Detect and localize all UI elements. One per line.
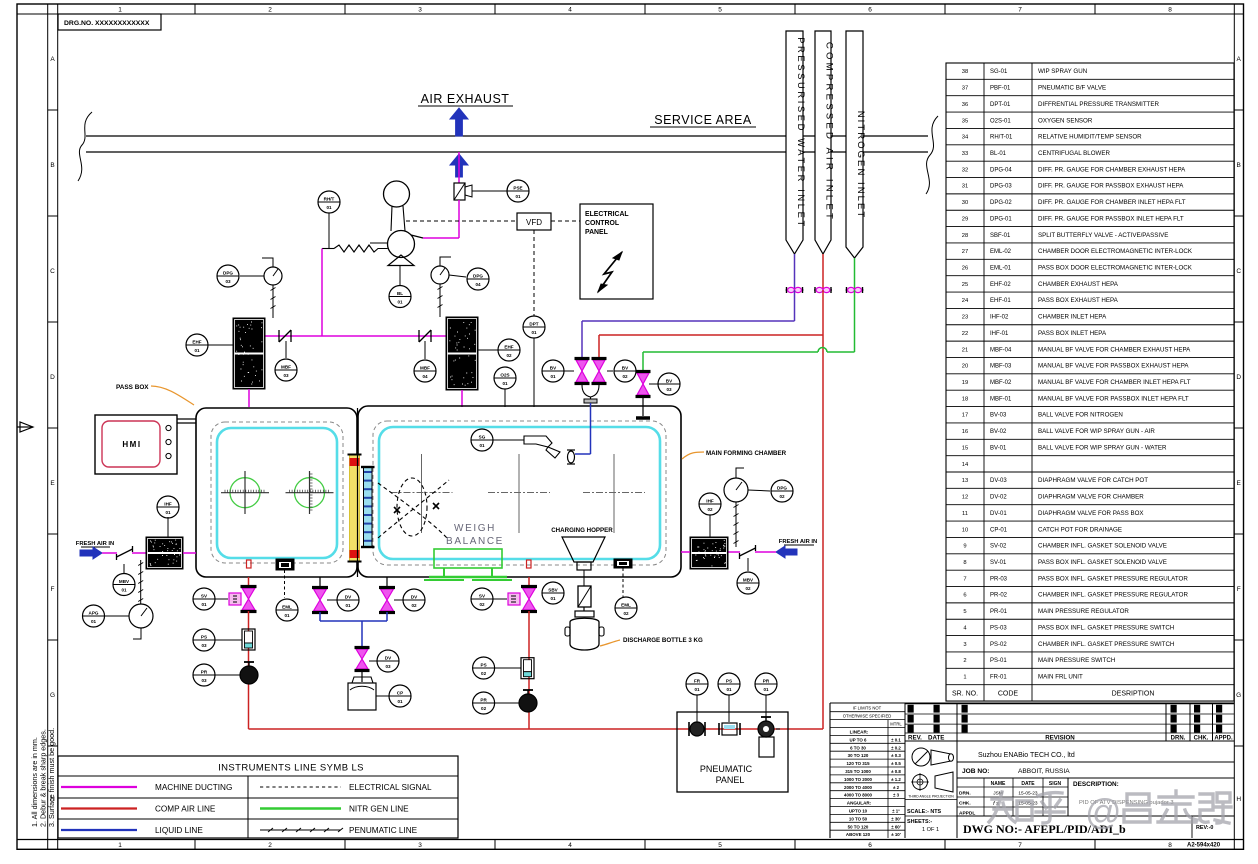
svg-text:SERVICE AREA: SERVICE AREA xyxy=(654,113,752,127)
svg-text:PR-02: PR-02 xyxy=(990,593,1008,599)
svg-text:02: 02 xyxy=(779,494,785,499)
svg-text:SBF-01: SBF-01 xyxy=(990,233,1011,239)
svg-text:CP-01: CP-01 xyxy=(990,527,1008,533)
svg-text:27: 27 xyxy=(962,249,968,255)
svg-text:SV: SV xyxy=(479,593,486,598)
svg-text:BALANCE: BALANCE xyxy=(446,536,504,547)
svg-text:BALL VALVE FOR WIP SPRAY GUN -: BALL VALVE FOR WIP SPRAY GUN - WATER xyxy=(1038,444,1167,451)
svg-text:NITROGEN INLET: NITROGEN INLET xyxy=(855,111,866,220)
svg-text:DIFF. PR. GAUGE FOR CHAMBER EX: DIFF. PR. GAUGE FOR CHAMBER EXHAUST HEPA xyxy=(1038,166,1186,173)
svg-text:BALL VALVE FOR WIP SPRAY GUN -: BALL VALVE FOR WIP SPRAY GUN - AIR xyxy=(1038,428,1155,435)
svg-text:BV-01: BV-01 xyxy=(990,445,1007,451)
svg-text:CHK.: CHK. xyxy=(959,801,971,807)
svg-text:DATE: DATE xyxy=(928,735,944,742)
svg-text:PASS BOX DOOR ELECTROMAGNETIC: PASS BOX DOOR ELECTROMAGNETIC INTER-LOCK xyxy=(1038,265,1193,272)
svg-text:G: G xyxy=(50,692,55,699)
svg-text:± 3: ± 3 xyxy=(893,793,900,798)
svg-text:CENTRIFUGAL BLOWER: CENTRIFUGAL BLOWER xyxy=(1038,150,1110,157)
svg-text:01: 01 xyxy=(694,687,700,692)
svg-text:16: 16 xyxy=(962,429,968,435)
svg-text:D: D xyxy=(50,374,55,381)
svg-text:01: 01 xyxy=(726,687,732,692)
svg-text:7: 7 xyxy=(1018,7,1022,14)
svg-text:O2S-01: O2S-01 xyxy=(990,118,1011,124)
svg-text:MANUAL BF VALVE FOR PASSBOX E: MANUAL BF VALVE FOR PASSBOX EXHAUST HEPA xyxy=(1038,363,1189,370)
svg-text:F: F xyxy=(51,586,55,593)
svg-text:8: 8 xyxy=(1168,842,1172,849)
svg-text:PR: PR xyxy=(480,697,487,702)
svg-text:HMI: HMI xyxy=(122,440,141,449)
svg-text:CONTROL: CONTROL xyxy=(585,220,619,227)
svg-text:3: 3 xyxy=(418,842,422,849)
svg-text:SV-02: SV-02 xyxy=(990,544,1007,550)
svg-text:CHAMBER DOOR ELECTROMAGNETIC I: CHAMBER DOOR ELECTROMAGNETIC INTER-LOCK xyxy=(1038,248,1193,255)
svg-text:RH/T: RH/T xyxy=(324,196,335,201)
svg-text:E: E xyxy=(1237,480,1242,487)
svg-text:DIAPHRAGM VALVE FOR PASS BOX: DIAPHRAGM VALVE FOR PASS BOX xyxy=(1038,510,1144,517)
svg-text:PASS BOX INFL. GASKET PRESSURE: PASS BOX INFL. GASKET PRESSURE SWITCH xyxy=(1038,624,1174,631)
svg-text:PSE: PSE xyxy=(513,185,522,190)
svg-text:2: 2 xyxy=(268,842,272,849)
svg-text:15-05-23: 15-05-23 xyxy=(1018,791,1038,797)
svg-text:ABOVE 120: ABOVE 120 xyxy=(846,832,871,837)
svg-text:01: 01 xyxy=(326,205,332,210)
svg-text:C: C xyxy=(50,268,55,275)
svg-text:O2S: O2S xyxy=(500,372,509,377)
svg-text:01: 01 xyxy=(550,596,556,601)
svg-text:C: C xyxy=(1236,268,1241,275)
svg-text:IHF-01: IHF-01 xyxy=(990,331,1009,337)
svg-text:B: B xyxy=(1237,162,1241,169)
svg-text:1: 1 xyxy=(118,842,122,849)
svg-text:F: F xyxy=(1237,586,1241,593)
svg-text:EHF-02: EHF-02 xyxy=(990,282,1011,288)
svg-text:MAIN PRESSURE SWITCH: MAIN PRESSURE SWITCH xyxy=(1038,657,1115,664)
svg-text:3: 3 xyxy=(418,7,422,14)
svg-text:DISCHARGE BOTTLE 3 KG: DISCHARGE BOTTLE 3 KG xyxy=(623,637,703,644)
svg-text:LIQUID LINE: LIQUID LINE xyxy=(155,826,203,835)
svg-text:9: 9 xyxy=(963,544,966,550)
svg-text:SCALE:- NTS: SCALE:- NTS xyxy=(907,809,942,815)
svg-text:A: A xyxy=(50,56,55,63)
svg-text:Suzhou ENABio TECH CO., ltd: Suzhou ENABio TECH CO., ltd xyxy=(978,752,1075,759)
svg-text:± 2: ± 2 xyxy=(893,785,900,790)
svg-text:01: 01 xyxy=(284,613,290,618)
svg-text:± 0.2: ± 0.2 xyxy=(891,745,901,750)
svg-text:DESCRIPTION:: DESCRIPTION: xyxy=(1073,781,1119,788)
svg-text:4: 4 xyxy=(568,7,572,14)
svg-text:3. Surface finish must be go: 3. Surface finish must be good. xyxy=(47,728,56,827)
svg-text:DV: DV xyxy=(411,594,418,599)
svg-text:APPDL: APPDL xyxy=(959,811,975,817)
svg-text:MBV: MBV xyxy=(743,577,754,582)
svg-text:± 1°: ± 1° xyxy=(892,809,900,814)
svg-text:BV-02: BV-02 xyxy=(990,429,1007,435)
svg-text:PR-01: PR-01 xyxy=(990,609,1008,615)
svg-text:04: 04 xyxy=(475,282,481,287)
svg-text:10 TO 50: 10 TO 50 xyxy=(849,816,868,821)
svg-text:CHAMBER INFL. GASKET PRESSURE: CHAMBER INFL. GASKET PRESSURE SWITCH xyxy=(1038,641,1174,648)
svg-text:CHAMBER INFL. GASKET PRESSURE: CHAMBER INFL. GASKET PRESSURE REGULATOR xyxy=(1038,592,1188,599)
svg-text:CHAMBER INLET HEPA: CHAMBER INLET HEPA xyxy=(1038,314,1107,321)
svg-text:PENUMATIC LINE: PENUMATIC LINE xyxy=(349,826,418,835)
svg-text:DRN.: DRN. xyxy=(1171,736,1186,742)
svg-text:FRESH AIR IN: FRESH AIR IN xyxy=(779,539,817,545)
svg-text:BV: BV xyxy=(622,365,629,370)
svg-text:MANUAL BF VALVE FOR CHAMBER I: MANUAL BF VALVE FOR CHAMBER INLET HEPA F… xyxy=(1038,379,1191,386)
svg-text:PS-02: PS-02 xyxy=(990,642,1007,648)
svg-text:WIP SPRAY GUN: WIP SPRAY GUN xyxy=(1038,68,1087,75)
svg-text:PS: PS xyxy=(481,662,487,667)
svg-text:INSTRUMENTS LINE SYMB LS: INSTRUMENTS LINE SYMB LS xyxy=(218,763,364,774)
svg-text:8: 8 xyxy=(963,560,966,566)
svg-text:DPG-01: DPG-01 xyxy=(990,216,1012,222)
svg-text:MBF-03: MBF-03 xyxy=(990,364,1012,370)
svg-text:26: 26 xyxy=(962,266,968,272)
svg-text:PS-03: PS-03 xyxy=(990,625,1007,631)
svg-text:5: 5 xyxy=(718,7,722,14)
svg-text:03: 03 xyxy=(201,678,207,683)
svg-text:01: 01 xyxy=(91,619,97,624)
svg-text:11: 11 xyxy=(962,511,968,517)
svg-text:ELECTRICAL: ELECTRICAL xyxy=(585,211,629,218)
svg-text:MBF: MBF xyxy=(281,364,291,369)
svg-text:2: 2 xyxy=(268,7,272,14)
svg-text:SIGN: SIGN xyxy=(1049,781,1062,787)
svg-text:DV-02: DV-02 xyxy=(990,495,1007,501)
svg-text:DESRIPTION: DESRIPTION xyxy=(1112,690,1155,697)
svg-text:BV: BV xyxy=(666,378,673,383)
svg-text:VFD: VFD xyxy=(526,218,542,227)
svg-text:SG-01: SG-01 xyxy=(990,69,1008,75)
svg-text:13: 13 xyxy=(962,478,968,484)
svg-text:PNEUMATIC: PNEUMATIC xyxy=(700,764,753,774)
svg-text:PASS BOX EXHAUST HEPA: PASS BOX EXHAUST HEPA xyxy=(1038,297,1119,304)
svg-text:35: 35 xyxy=(962,118,968,124)
svg-text:± 30′: ± 30′ xyxy=(891,816,901,821)
svg-text:02: 02 xyxy=(479,602,485,607)
svg-text:B: B xyxy=(50,162,54,169)
svg-text:@: @ xyxy=(1085,791,1122,832)
svg-text:02: 02 xyxy=(481,671,487,676)
svg-text:MBV: MBV xyxy=(119,579,130,584)
svg-text:DPG-03: DPG-03 xyxy=(990,184,1012,190)
svg-text:ELECTRICAL SIGNAL: ELECTRICAL SIGNAL xyxy=(349,783,432,792)
svg-text:5: 5 xyxy=(718,842,722,849)
svg-text:4000 TO 8000: 4000 TO 8000 xyxy=(844,793,873,798)
svg-text:315 TO 1000: 315 TO 1000 xyxy=(845,769,871,774)
svg-text:EML: EML xyxy=(282,604,292,609)
svg-text:37: 37 xyxy=(962,86,968,92)
svg-text:03: 03 xyxy=(283,373,289,378)
svg-text:50 TO 120: 50 TO 120 xyxy=(848,824,869,829)
svg-text:BV: BV xyxy=(550,365,557,370)
svg-text:33: 33 xyxy=(962,151,968,157)
svg-text:DPG: DPG xyxy=(777,485,787,490)
svg-text:PNEUMATIC B/F VALVE: PNEUMATIC B/F VALVE xyxy=(1038,85,1106,92)
svg-text:36: 36 xyxy=(962,102,968,108)
svg-text:02: 02 xyxy=(622,374,628,379)
svg-text:120 TO 315: 120 TO 315 xyxy=(846,761,870,766)
svg-text:IHF-02: IHF-02 xyxy=(990,315,1009,321)
svg-text:THIRD ANGLE PROJECTION: THIRD ANGLE PROJECTION xyxy=(908,795,954,799)
svg-text:IF LIMITS NOT: IF LIMITS NOT xyxy=(853,706,882,711)
svg-text:8: 8 xyxy=(1168,7,1172,14)
svg-text:PBF-01: PBF-01 xyxy=(990,86,1011,92)
svg-text:DPG: DPG xyxy=(223,270,233,275)
svg-text:DV: DV xyxy=(385,655,392,660)
svg-text:17: 17 xyxy=(962,413,968,419)
svg-text:01: 01 xyxy=(550,374,556,379)
svg-text:28: 28 xyxy=(962,233,968,239)
svg-text:MANUAL BF VALVE FOR CHAMBER E: MANUAL BF VALVE FOR CHAMBER EXHAUST HEPA xyxy=(1038,346,1191,353)
svg-text:SBV: SBV xyxy=(548,587,558,592)
svg-text:1000 TO 2000: 1000 TO 2000 xyxy=(844,777,873,782)
svg-text:LINEAR:: LINEAR: xyxy=(850,730,869,735)
svg-text:REV.: REV. xyxy=(908,735,922,742)
svg-text:COMPRESSED AIR INLET: COMPRESSED AIR INLET xyxy=(823,42,834,222)
svg-text:SPLIT BUTTERFLY VALVE - ACTIVE: SPLIT BUTTERFLY VALVE - ACTIVE/PASSIVE xyxy=(1038,232,1168,239)
svg-text:31: 31 xyxy=(962,184,968,190)
svg-text:03: 03 xyxy=(201,643,207,648)
svg-text:34: 34 xyxy=(962,135,969,141)
svg-text:OTHERWISE SPECIFIED: OTHERWISE SPECIFIED xyxy=(843,714,892,719)
svg-text:01: 01 xyxy=(479,443,485,448)
svg-text:DPT: DPT xyxy=(529,321,538,326)
svg-text:CHK.: CHK. xyxy=(1194,736,1209,742)
svg-text:5: 5 xyxy=(963,609,966,615)
svg-text:PASS BOX: PASS BOX xyxy=(116,384,149,391)
svg-text:EML: EML xyxy=(621,602,631,607)
svg-text:CHAMBER INFL. GASKET SOLENOID: CHAMBER INFL. GASKET SOLENOID VALVE xyxy=(1038,543,1167,550)
svg-text:PASS BOX INFL. GASKET SOLENOID: PASS BOX INFL. GASKET SOLENOID VALVE xyxy=(1038,559,1167,566)
svg-text:18: 18 xyxy=(962,396,968,402)
svg-text:DV-03: DV-03 xyxy=(990,478,1007,484)
svg-text:3: 3 xyxy=(963,642,966,648)
svg-text:DV: DV xyxy=(345,594,352,599)
svg-text:MANUAL BF VALVE FOR PASSBOX I: MANUAL BF VALVE FOR PASSBOX INLET HEPA F… xyxy=(1038,395,1189,402)
svg-text:DIFF. PR. GAUGE FOR PASSBOX IN: DIFF. PR. GAUGE FOR PASSBOX INLET HEPA F… xyxy=(1038,215,1184,222)
svg-text:DPG-04: DPG-04 xyxy=(990,167,1012,173)
svg-text:PRESSURISED WATER INLET: PRESSURISED WATER INLET xyxy=(796,37,807,229)
svg-text:FR: FR xyxy=(694,678,701,683)
svg-text:RH/T-01: RH/T-01 xyxy=(990,135,1013,141)
svg-text:MBF: MBF xyxy=(420,365,430,370)
svg-text:AIR EXHAUST: AIR EXHAUST xyxy=(421,92,510,106)
svg-text:DIAPHRAGM VALVE FOR CATCH POT: DIAPHRAGM VALVE FOR CATCH POT xyxy=(1038,477,1148,484)
svg-text:BALL VALVE FOR NITROGEN: BALL VALVE FOR NITROGEN xyxy=(1038,412,1123,419)
svg-text:± 1.2: ± 1.2 xyxy=(891,777,901,782)
svg-text:D: D xyxy=(1236,374,1241,381)
svg-text:29: 29 xyxy=(962,216,968,222)
svg-text:32: 32 xyxy=(962,167,968,173)
svg-text:19: 19 xyxy=(962,380,968,386)
svg-text:6 TO 30: 6 TO 30 xyxy=(850,745,866,750)
svg-text:CHARGING HOPPER: CHARGING HOPPER xyxy=(551,527,613,534)
svg-text:± 0.3: ± 0.3 xyxy=(891,753,901,758)
svg-text:MTRL: MTRL xyxy=(890,722,902,727)
svg-text:SV-01: SV-01 xyxy=(990,560,1007,566)
svg-text:CATCH POT FOR DRAINAGE: CATCH POT FOR DRAINAGE xyxy=(1038,526,1122,533)
svg-text:01: 01 xyxy=(397,699,403,704)
svg-text:30: 30 xyxy=(962,200,968,206)
svg-text:12: 12 xyxy=(962,495,968,501)
svg-text:WEIGH: WEIGH xyxy=(454,523,496,534)
svg-text:PASS BOX INFL. GASKET PRESSURE: PASS BOX INFL. GASKET PRESSURE REGULATOR xyxy=(1038,575,1188,582)
svg-text:01: 01 xyxy=(345,603,351,608)
svg-text:03: 03 xyxy=(385,664,391,669)
svg-text:A: A xyxy=(1237,56,1242,63)
svg-text:MBF-04: MBF-04 xyxy=(990,347,1012,353)
svg-text:PANEL: PANEL xyxy=(585,229,608,236)
svg-text:01: 01 xyxy=(201,602,207,607)
svg-text:PS: PS xyxy=(726,678,732,683)
svg-text:MBF-02: MBF-02 xyxy=(990,380,1012,386)
svg-text:DPT-01: DPT-01 xyxy=(990,102,1011,108)
svg-text:20: 20 xyxy=(962,364,968,370)
svg-text:1: 1 xyxy=(963,675,966,681)
svg-text:E: E xyxy=(50,480,55,487)
svg-text:PR: PR xyxy=(201,669,208,674)
svg-text:02: 02 xyxy=(745,586,751,591)
svg-text:APG: APG xyxy=(89,610,99,615)
svg-text:01: 01 xyxy=(531,330,537,335)
svg-text:01: 01 xyxy=(397,299,403,304)
svg-text:NITR GEN LINE: NITR GEN LINE xyxy=(349,805,409,814)
svg-text:10: 10 xyxy=(962,527,968,533)
svg-text:MACHINE DUCTING: MACHINE DUCTING xyxy=(155,783,232,792)
svg-text:SR. NO.: SR. NO. xyxy=(952,690,978,697)
svg-text:± 60′: ± 60′ xyxy=(891,824,901,829)
svg-text:A2-594x420: A2-594x420 xyxy=(1187,843,1221,849)
svg-text:CHAMBER EXHAUST HEPA: CHAMBER EXHAUST HEPA xyxy=(1038,281,1119,288)
svg-text:2000 TO 4000: 2000 TO 4000 xyxy=(844,785,873,790)
svg-text:JOB NO:: JOB NO: xyxy=(962,768,989,775)
svg-text:CODE: CODE xyxy=(998,690,1019,697)
svg-text:02: 02 xyxy=(411,603,417,608)
svg-text:UPTO 10: UPTO 10 xyxy=(849,809,868,814)
svg-text:REVISION: REVISION xyxy=(1045,735,1075,742)
svg-text:± 0.5: ± 0.5 xyxy=(891,761,901,766)
svg-text:01: 01 xyxy=(502,381,508,386)
svg-text:RELATIVE HUMIDIT/TEMP SENSOR: RELATIVE HUMIDIT/TEMP SENSOR xyxy=(1038,134,1142,141)
svg-text:01: 01 xyxy=(194,348,200,353)
svg-text:FR-01: FR-01 xyxy=(990,675,1007,681)
svg-text:4: 4 xyxy=(568,842,572,849)
svg-text:02: 02 xyxy=(506,353,512,358)
svg-text:02: 02 xyxy=(623,611,629,616)
svg-text:NAME: NAME xyxy=(991,781,1006,787)
svg-text:DRN.: DRN. xyxy=(959,791,971,797)
svg-text:6: 6 xyxy=(868,7,872,14)
svg-text:OXYGEN SENSOR: OXYGEN SENSOR xyxy=(1038,117,1093,124)
svg-text:IHF: IHF xyxy=(164,501,172,506)
svg-text:30 TO 120: 30 TO 120 xyxy=(848,753,869,758)
svg-text:DPG-02: DPG-02 xyxy=(990,200,1012,206)
svg-text:03: 03 xyxy=(666,387,672,392)
svg-text:02: 02 xyxy=(481,706,487,711)
svg-text:24: 24 xyxy=(962,298,969,304)
svg-text:PR-03: PR-03 xyxy=(990,576,1008,582)
svg-text:ABBOIT, RUSSIA: ABBOIT, RUSSIA xyxy=(1018,768,1070,775)
svg-text:REV:-0: REV:-0 xyxy=(1196,825,1213,831)
svg-text:PANEL: PANEL xyxy=(716,775,745,785)
svg-text:MAIN FRL UNIT: MAIN FRL UNIT xyxy=(1038,674,1083,681)
svg-text:± 0.1: ± 0.1 xyxy=(891,737,901,742)
svg-text:SG: SG xyxy=(479,434,486,439)
svg-text:22: 22 xyxy=(962,331,968,337)
svg-text:PASS BOX INLET HEPA: PASS BOX INLET HEPA xyxy=(1038,330,1107,337)
svg-text:25: 25 xyxy=(962,282,968,288)
svg-text:6: 6 xyxy=(963,593,966,599)
svg-text:2: 2 xyxy=(963,658,966,664)
svg-text:7: 7 xyxy=(1018,842,1022,849)
svg-text:PR: PR xyxy=(763,678,770,683)
svg-text:DIFF. PR. GAUGE FOR PASSBOX EX: DIFF. PR. GAUGE FOR PASSBOX EXHAUST HEPA xyxy=(1038,183,1184,190)
svg-text:ANGULAR:: ANGULAR: xyxy=(847,801,872,806)
svg-text:BL-01: BL-01 xyxy=(990,151,1007,157)
svg-text:23: 23 xyxy=(962,315,968,321)
svg-text:G: G xyxy=(1236,692,1241,699)
svg-text:BV-03: BV-03 xyxy=(990,413,1007,419)
svg-text:01: 01 xyxy=(763,687,769,692)
svg-text:04: 04 xyxy=(422,374,428,379)
svg-text:COMP AIR LINE: COMP AIR LINE xyxy=(155,805,216,814)
svg-text:DATE: DATE xyxy=(1021,781,1035,787)
svg-text:02: 02 xyxy=(707,507,713,512)
svg-text:IHF: IHF xyxy=(706,498,714,503)
svg-text:H: H xyxy=(1236,796,1241,803)
svg-text:EHF: EHF xyxy=(504,344,513,349)
svg-text:03: 03 xyxy=(225,279,231,284)
svg-text:DIFF. PR. GAUGE FOR CHAMBER IN: DIFF. PR. GAUGE FOR CHAMBER INLET HEPA F… xyxy=(1038,199,1186,206)
svg-text:EHF-01: EHF-01 xyxy=(990,298,1011,304)
svg-text:± 0.8: ± 0.8 xyxy=(891,769,901,774)
svg-text:1 OF 1: 1 OF 1 xyxy=(922,827,939,833)
svg-text:UP TO 6: UP TO 6 xyxy=(850,737,867,742)
svg-text:± 10′: ± 10′ xyxy=(891,832,901,837)
svg-text:DIFFRENTIAL PRESSURE TRANSMITT: DIFFRENTIAL PRESSURE TRANSMITTER xyxy=(1038,101,1160,108)
svg-text:MAIN FORMING CHAMBER: MAIN FORMING CHAMBER xyxy=(706,450,787,457)
svg-text:MBF-01: MBF-01 xyxy=(990,396,1012,402)
svg-text:EML-01: EML-01 xyxy=(990,266,1012,272)
svg-text:DPG: DPG xyxy=(473,273,483,278)
svg-text:01: 01 xyxy=(121,587,127,592)
svg-text:DIAPHRAGM VALVE FOR CHAMBER: DIAPHRAGM VALVE FOR CHAMBER xyxy=(1038,494,1144,501)
svg-text:1: 1 xyxy=(118,7,122,14)
svg-text:PS: PS xyxy=(201,634,207,639)
svg-text:14: 14 xyxy=(962,462,969,468)
svg-text:15: 15 xyxy=(962,445,968,451)
svg-text:7: 7 xyxy=(963,576,966,582)
svg-text:38: 38 xyxy=(962,69,968,75)
svg-text:01: 01 xyxy=(165,510,171,515)
svg-text:DRG.NO. XXXXXXXXXXXX: DRG.NO. XXXXXXXXXXXX xyxy=(64,20,150,27)
svg-text:MAIN PRESSURE REGULATOR: MAIN PRESSURE REGULATOR xyxy=(1038,608,1129,615)
svg-text:SHEETS:-: SHEETS:- xyxy=(907,819,932,825)
svg-text:EHF: EHF xyxy=(192,339,201,344)
svg-text:EML-02: EML-02 xyxy=(990,249,1012,255)
svg-text:APPD.: APPD. xyxy=(1214,736,1233,742)
svg-text:6: 6 xyxy=(868,842,872,849)
svg-text:01: 01 xyxy=(515,194,521,199)
svg-text:BL: BL xyxy=(397,291,403,296)
svg-text:FRESH AIR IN: FRESH AIR IN xyxy=(76,541,114,547)
svg-text:PS-01: PS-01 xyxy=(990,658,1007,664)
svg-text:21: 21 xyxy=(962,347,968,353)
svg-text:CP: CP xyxy=(397,690,403,695)
svg-text:DV-01: DV-01 xyxy=(990,511,1007,517)
